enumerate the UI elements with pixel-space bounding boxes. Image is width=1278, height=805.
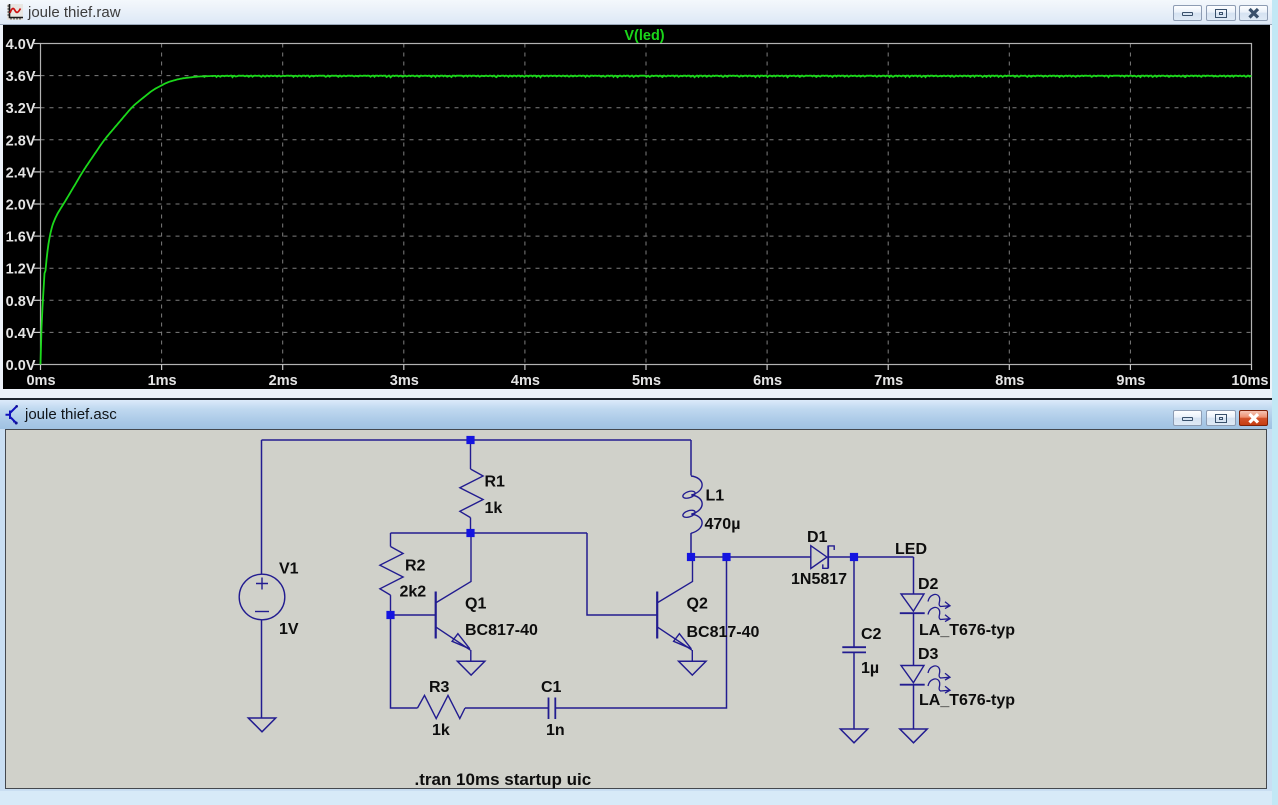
svg-text:2.0V: 2.0V bbox=[5, 197, 35, 213]
svg-text:1k: 1k bbox=[432, 722, 450, 739]
wire node OUT to D1 bbox=[691, 556, 811, 558]
ground Q2 emitter bbox=[678, 661, 705, 675]
LED D3 light arrows bbox=[928, 666, 950, 680]
wire C2 bottom lead bbox=[853, 653, 855, 729]
resistor R2 bbox=[379, 547, 402, 596]
svg-text:L1: L1 bbox=[705, 488, 724, 505]
diode D1 (schottky) bbox=[810, 546, 826, 569]
svg-text:1.6V: 1.6V bbox=[5, 229, 35, 245]
svg-text:1.2V: 1.2V bbox=[5, 261, 35, 277]
svg-text:8ms: 8ms bbox=[995, 373, 1024, 389]
svg-text:1µ: 1µ bbox=[861, 660, 879, 677]
wire top rail bbox=[261, 439, 691, 441]
ground C2 bbox=[840, 729, 867, 743]
svg-text:1N5817: 1N5817 bbox=[791, 571, 847, 588]
node junction D1/C2/LED bbox=[849, 553, 857, 561]
wire C2 top lead bbox=[853, 557, 855, 647]
ground D3 bbox=[899, 729, 926, 743]
svg-text:470µ: 470µ bbox=[704, 516, 740, 533]
capacitor C1 bbox=[548, 698, 555, 720]
wire node N001 (R1 bottom rail) bbox=[390, 532, 587, 534]
svg-text:2k2: 2k2 bbox=[399, 584, 426, 601]
svg-text:1k: 1k bbox=[484, 500, 502, 517]
ground V1 bbox=[248, 718, 275, 732]
node junction L1/Q2 collector bbox=[686, 553, 694, 561]
LED D3 bbox=[901, 666, 924, 683]
svg-text:9ms: 9ms bbox=[1116, 373, 1145, 389]
schematic canvas bbox=[5, 429, 1268, 790]
svg-text:3ms: 3ms bbox=[389, 373, 418, 389]
svg-text:0.4V: 0.4V bbox=[5, 325, 35, 341]
resistor R1 bbox=[459, 469, 482, 518]
ground Q1 emitter bbox=[457, 661, 484, 675]
node junction R2/R3/Q1 base bbox=[386, 611, 394, 619]
wire C1 to node OUT riser bbox=[555, 557, 726, 708]
transistor Q1 bbox=[434, 592, 436, 639]
capacitor C2 bbox=[842, 647, 866, 652]
svg-text:LED: LED bbox=[895, 541, 927, 558]
wire D3 to ground bbox=[912, 685, 914, 729]
waveform viewer window joule thief.raw bbox=[0, 0, 1272, 398]
svg-text:C2: C2 bbox=[861, 626, 882, 643]
svg-text:BC817-40: BC817-40 bbox=[686, 624, 759, 641]
transistor Q2 bbox=[656, 592, 658, 639]
wire Q1 base bbox=[390, 614, 435, 616]
LED D2 bbox=[901, 594, 924, 611]
resistor R2 lead bbox=[389, 595, 391, 615]
wire R2 bottom to R3 bbox=[390, 615, 417, 708]
wire V1 bottom lead bbox=[260, 620, 262, 719]
svg-text:10ms: 10ms bbox=[1231, 373, 1268, 389]
svg-text:V(led): V(led) bbox=[624, 28, 664, 44]
LED D2 light arrows bbox=[928, 594, 950, 608]
resistor R1 bottom lead bbox=[469, 518, 471, 533]
wire D1 to LED branch bbox=[828, 556, 913, 558]
svg-text:Q1: Q1 bbox=[465, 596, 486, 613]
wire R3 to C1 bbox=[465, 707, 548, 709]
svg-text:.tran 10ms startup uic: .tran 10ms startup uic bbox=[414, 770, 591, 789]
inductor L1 bbox=[691, 476, 702, 533]
wire L1 top lead bbox=[690, 440, 692, 476]
resistor R1 top lead bbox=[469, 440, 471, 469]
svg-text:C1: C1 bbox=[541, 679, 562, 696]
svg-text:0.8V: 0.8V bbox=[5, 293, 35, 309]
svg-text:R3: R3 bbox=[429, 679, 450, 696]
waveform window icon bbox=[7, 4, 23, 20]
node junction R1/Q2 feed bbox=[466, 529, 474, 537]
svg-text:5ms: 5ms bbox=[631, 373, 660, 389]
schematic window icon bbox=[4, 403, 22, 425]
svg-text:0.0V: 0.0V bbox=[5, 358, 35, 374]
svg-text:3.6V: 3.6V bbox=[5, 69, 35, 85]
svg-text:R1: R1 bbox=[484, 474, 505, 491]
wire L1 bottom lead bbox=[690, 533, 692, 557]
schematic editor window joule thief.asc bbox=[0, 398, 1272, 805]
node junction top rail/R1 bbox=[466, 436, 474, 444]
svg-text:R2: R2 bbox=[405, 558, 426, 575]
svg-text:LA_T676-typ: LA_T676-typ bbox=[919, 622, 1015, 639]
waveform plot pane bbox=[3, 25, 1270, 389]
svg-text:2ms: 2ms bbox=[268, 373, 297, 389]
svg-text:6ms: 6ms bbox=[753, 373, 782, 389]
wire Q2 base feed bbox=[587, 533, 657, 615]
svg-text:4ms: 4ms bbox=[510, 373, 539, 389]
wire LED branch drop bbox=[912, 557, 914, 594]
svg-text:V1: V1 bbox=[279, 561, 299, 578]
wire D2 to D3 bbox=[912, 613, 914, 666]
svg-text:1n: 1n bbox=[546, 722, 565, 739]
svg-text:7ms: 7ms bbox=[874, 373, 903, 389]
svg-text:D1: D1 bbox=[807, 529, 828, 546]
svg-text:2.8V: 2.8V bbox=[5, 133, 35, 149]
svg-text:Q2: Q2 bbox=[686, 596, 707, 613]
svg-text:1ms: 1ms bbox=[147, 373, 176, 389]
wire V1 top lead bbox=[260, 440, 262, 575]
resistor R2 top lead bbox=[389, 533, 391, 547]
svg-text:1V: 1V bbox=[279, 621, 299, 638]
svg-text:BC817-40: BC817-40 bbox=[465, 622, 538, 639]
resistor R3 bbox=[417, 695, 465, 718]
svg-text:D2: D2 bbox=[918, 576, 939, 593]
svg-text:2.4V: 2.4V bbox=[5, 165, 35, 181]
svg-text:D3: D3 bbox=[918, 646, 939, 663]
svg-text:4.0V: 4.0V bbox=[5, 37, 35, 53]
voltage source V1 bbox=[239, 574, 285, 620]
node junction C1 feedback bbox=[722, 553, 730, 561]
svg-text:3.2V: 3.2V bbox=[5, 101, 35, 117]
svg-text:0ms: 0ms bbox=[26, 373, 55, 389]
svg-text:LA_T676-typ: LA_T676-typ bbox=[919, 692, 1015, 709]
